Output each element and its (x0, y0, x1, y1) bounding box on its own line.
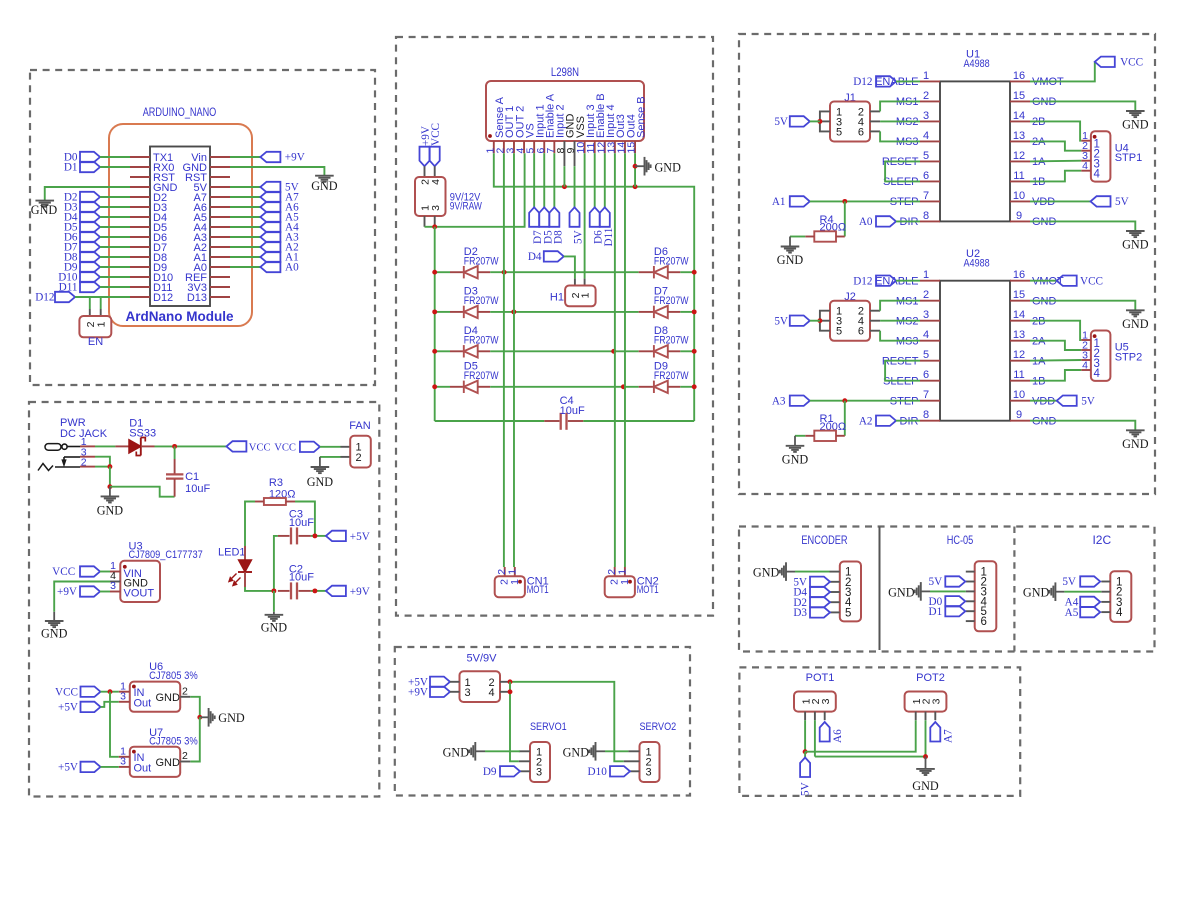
pin 4 VS of L298N (523, 141, 525, 153)
junction right rail (692, 309, 697, 314)
svg-text:EN: EN (88, 336, 103, 348)
wire pin15 (634, 153, 636, 187)
global label D11 (600, 207, 610, 227)
connector EN (89, 309, 91, 316)
wire (101, 702, 119, 707)
svg-text:GND: GND (311, 179, 338, 193)
svg-text:5V: 5V (1081, 395, 1095, 407)
global label 5V (1080, 576, 1100, 586)
global label D0 (945, 596, 965, 606)
pin 10 Input 3 of L298N (584, 141, 586, 153)
wire bottom rail (435, 420, 545, 422)
wire D4 to H1 (564, 256, 575, 278)
wire (320, 446, 341, 448)
global label A2 (230, 246, 260, 248)
connector U5 STP2 (1091, 331, 1111, 381)
global label A5 (230, 216, 260, 218)
svg-text:7: 7 (923, 389, 929, 401)
global label +9V (326, 586, 346, 596)
pin 3V3 (right) (210, 286, 230, 288)
wire (896, 280, 920, 282)
wire (89, 297, 91, 309)
pin 3 encoder (830, 591, 840, 593)
module outline (orange rounded rect) (109, 124, 252, 326)
pin 5 hc05 (966, 610, 975, 612)
svg-text:3: 3 (430, 205, 442, 211)
svg-text:GND: GND (261, 621, 288, 635)
pin 3 U4 (1081, 160, 1091, 162)
svg-text:Sense B: Sense B (635, 96, 647, 138)
global label +5V (326, 531, 346, 541)
svg-text:9: 9 (1016, 210, 1022, 222)
svg-text:5: 5 (845, 607, 851, 619)
wire (155, 445, 227, 447)
wire VSS (574, 166, 576, 207)
svg-text:4: 4 (923, 329, 929, 341)
wire (100, 196, 130, 198)
wire (109, 467, 111, 487)
wire (75, 296, 130, 298)
pin 13 Out3 of L298N (614, 141, 616, 153)
svg-text:2: 2 (81, 457, 87, 469)
connector U4 STP1 (1091, 131, 1111, 181)
svg-text:5V: 5V (774, 116, 788, 128)
junction left rail (432, 309, 437, 314)
global label D2 (80, 192, 100, 202)
svg-text:D10: D10 (588, 766, 608, 778)
svg-text:A4988: A4988 (964, 257, 990, 269)
pin 1 hc05 (966, 571, 975, 573)
global label A4 (230, 226, 260, 228)
svg-text:2: 2 (182, 685, 188, 697)
pin 1 U5 (1081, 339, 1091, 341)
junction (312, 588, 317, 593)
svg-text:10: 10 (1013, 190, 1025, 202)
pin 6 hc05 (966, 620, 975, 622)
svg-text:+9V: +9V (408, 687, 428, 699)
pin 1 U4 (1081, 140, 1091, 142)
svg-text:HC-05: HC-05 (947, 533, 974, 547)
junction (803, 749, 808, 754)
wire pot1 pin1 (804, 720, 806, 752)
pin 2 i2c (1101, 591, 1110, 593)
pin D9 (left) (130, 266, 150, 268)
pin 12 Input 4 of L298N (604, 141, 606, 153)
svg-text:GND: GND (97, 504, 124, 518)
global label D9 (500, 766, 520, 776)
ground GND (FAN) (319, 457, 321, 467)
pin 2 MS1 of U1 (920, 100, 940, 102)
svg-text:GND: GND (1122, 118, 1149, 132)
svg-text:L298N: L298N (551, 67, 579, 79)
wire to C1 bottom (110, 487, 175, 497)
ground (794, 436, 796, 446)
wire (95, 445, 115, 447)
wire (605, 750, 628, 752)
svg-text:FAN: FAN (349, 420, 370, 432)
svg-text:3: 3 (536, 766, 542, 778)
pin 15 GND of U1 (1010, 100, 1030, 102)
global label 5V (VDD) (1030, 200, 1091, 202)
junction (923, 754, 928, 759)
wire pin8 (563, 166, 565, 187)
global label 5V (570, 207, 580, 227)
global label D10 (610, 766, 630, 776)
junction (508, 689, 513, 694)
svg-text:5V: 5V (774, 315, 788, 327)
IC body ARDUINO_NANO (150, 147, 210, 307)
pin 1 ENABLE of U2 (920, 280, 940, 282)
pin 7 STEP of U2 (920, 400, 940, 402)
junction left rail (432, 349, 437, 354)
svg-text:4: 4 (923, 130, 929, 142)
svg-text:5: 5 (836, 126, 842, 138)
global label 5V (810, 577, 830, 587)
wire 1B to STP pin4 (1030, 370, 1081, 381)
svg-text:GND: GND (1122, 238, 1149, 252)
pin 1 ENABLE of U1 (920, 80, 940, 82)
junction (432, 224, 437, 229)
junction (107, 464, 112, 469)
svg-text:A3: A3 (772, 395, 786, 407)
svg-text:4: 4 (489, 687, 495, 699)
pin 7 Input 2 of L298N (553, 141, 555, 153)
pin 1 U3 (110, 571, 120, 573)
svg-text:10uF: 10uF (289, 572, 314, 584)
pin 5 RESET of U1 (920, 160, 940, 162)
global label VCC (80, 566, 100, 576)
global label D3 (80, 202, 100, 212)
pin A7 (right) (210, 196, 230, 198)
svg-text:D12: D12 (35, 292, 54, 304)
junction right rail (692, 384, 697, 389)
svg-text:GND: GND (563, 745, 590, 759)
wire Input2 (553, 153, 555, 207)
pin RST (left) (130, 176, 150, 178)
global label D4 (544, 251, 564, 261)
global label D5 (539, 207, 549, 227)
global label D4 (810, 587, 830, 597)
svg-text:GND: GND (156, 757, 181, 769)
section box: ARDUINO_NANO module (30, 70, 375, 385)
global label A7 (230, 196, 260, 198)
pin D4 (left) (130, 216, 150, 218)
wire (100, 166, 130, 168)
svg-text:3: 3 (820, 698, 832, 704)
pin 1 U7 (119, 756, 130, 758)
svg-text:POT1: POT1 (806, 672, 835, 684)
svg-text:6: 6 (923, 170, 929, 182)
pin 4 U3 (110, 581, 120, 583)
svg-text:GND: GND (777, 253, 804, 267)
svg-text:1: 1 (96, 321, 108, 327)
wire Input4 (604, 153, 606, 207)
global label D3 (810, 607, 830, 617)
svg-text:R3: R3 (269, 477, 283, 489)
wire J pin2 to MS1 (870, 310, 880, 312)
global label 5V (790, 316, 810, 326)
pin1/3 stubs (450, 681, 460, 683)
section box: L298N motor driver (396, 37, 713, 616)
section box: stepper drivers (739, 34, 1155, 494)
svg-text:15: 15 (1013, 90, 1025, 102)
svg-text:6: 6 (858, 126, 864, 138)
wire (274, 536, 278, 591)
pin 4 U4 (1081, 170, 1091, 172)
svg-text:9: 9 (1016, 409, 1022, 421)
wire RESET-SLEEP (885, 161, 920, 181)
svg-text:1: 1 (506, 569, 518, 575)
wire GND right (230, 167, 324, 175)
global label VCC (81, 687, 101, 697)
global label D11 (80, 282, 100, 292)
wire (896, 420, 920, 422)
wire (311, 535, 326, 537)
global label D10 (80, 272, 100, 282)
global label 5V (VDD) (1030, 400, 1057, 402)
svg-text:C1: C1 (185, 471, 199, 483)
svg-text:D12: D12 (853, 275, 872, 287)
pin 4 MS3 of U2 (920, 340, 940, 342)
junction (172, 444, 177, 449)
global label A3 (230, 236, 260, 238)
pin D7 (left) (130, 246, 150, 248)
svg-text:D1: D1 (64, 162, 78, 174)
junction (817, 119, 822, 124)
ground (35, 200, 54, 202)
wire (174, 446, 176, 459)
global label A6 (820, 722, 830, 742)
pin 2 U5 (1081, 349, 1091, 351)
pin 1 U6 (119, 691, 130, 693)
pin GND (left) (130, 186, 150, 188)
global label D0 (80, 152, 100, 162)
wire (896, 80, 920, 82)
svg-text:GND: GND (1122, 437, 1149, 451)
svg-text:GND: GND (782, 452, 809, 466)
capacitor C1 10uF (174, 459, 176, 474)
wire J pin4 to MS2 (870, 320, 880, 322)
pin 3 U7 (119, 766, 130, 768)
svg-text:3: 3 (931, 698, 943, 704)
svg-text:13: 13 (1013, 130, 1025, 142)
wire (680, 311, 694, 313)
svg-text:A6: A6 (832, 729, 844, 743)
svg-text:4: 4 (1094, 368, 1101, 380)
svg-text:10: 10 (1013, 389, 1025, 401)
wire (101, 691, 119, 693)
pin 11 1B of U1 (1010, 180, 1030, 182)
svg-text:GND: GND (655, 160, 682, 174)
wire (100, 256, 130, 258)
svg-text:10uF: 10uF (185, 483, 210, 495)
svg-text:2: 2 (356, 452, 362, 464)
svg-text:3: 3 (923, 110, 929, 122)
svg-text:5: 5 (923, 349, 929, 361)
global label A4 (1080, 597, 1100, 607)
wire (490, 311, 639, 313)
svg-text:VCC: VCC (1080, 275, 1103, 287)
pin 12 1A of U1 (1010, 160, 1030, 162)
wire J pin4 to MS2 (870, 120, 880, 122)
pin 15 Sense B of L298N (634, 141, 636, 153)
global label D7 (529, 207, 539, 227)
junction (271, 588, 276, 593)
pin 6 SLEEP of U1 (920, 180, 940, 182)
wire Input1 (533, 153, 535, 207)
svg-text:D12: D12 (853, 76, 872, 88)
svg-text:GND: GND (1023, 585, 1050, 599)
section box: servo power (395, 647, 690, 796)
connector 9V/12V 9V/RAW (424, 166, 426, 177)
svg-text:5V/9V: 5V/9V (467, 652, 498, 664)
svg-text:10uF: 10uF (289, 517, 314, 529)
svg-text:VCC: VCC (274, 442, 296, 453)
global label A0 (230, 266, 260, 268)
pin 4 i2c (1101, 611, 1110, 613)
wire (795, 435, 805, 437)
pin1 dot L298N (488, 134, 492, 138)
wire Out3 column (614, 153, 616, 567)
ground (53, 612, 55, 621)
wire Out4 column (624, 153, 626, 567)
wire 1A to STP pin3 (1030, 160, 1081, 163)
pin 16 VMOT of U2 (1010, 280, 1030, 282)
pin D11 (left) (130, 286, 150, 288)
svg-text:11: 11 (1013, 170, 1024, 182)
global label +9V (80, 586, 100, 596)
wire GND left (45, 187, 130, 200)
ground (1126, 429, 1145, 431)
svg-text:SERVO2: SERVO2 (640, 721, 677, 733)
junction (107, 484, 112, 489)
svg-text:5V: 5V (929, 576, 943, 588)
svg-text:GND: GND (912, 779, 939, 793)
wire VCC down to U7 (110, 692, 119, 757)
wire pot2 pin1 to row A (805, 720, 916, 752)
wire GND pin15 (1030, 101, 1135, 110)
wire (100, 266, 130, 268)
global label D7 (80, 242, 100, 252)
svg-text:+9V: +9V (350, 586, 370, 598)
svg-text:6: 6 (923, 369, 929, 381)
svg-text:8: 8 (923, 409, 929, 421)
svg-text:D9: D9 (483, 766, 497, 778)
svg-text:VCC: VCC (430, 123, 442, 146)
svg-text:3: 3 (110, 580, 116, 592)
pin 15 GND of U2 (1010, 300, 1030, 302)
pin REF (right) (210, 276, 230, 278)
global label +5V (430, 677, 450, 687)
global label +9V (430, 687, 450, 697)
svg-text:3: 3 (120, 690, 126, 702)
svg-text:3: 3 (465, 687, 471, 699)
svg-text:5V: 5V (800, 782, 812, 796)
svg-text:+5V: +5V (58, 702, 78, 714)
svg-text:10uF: 10uF (560, 405, 585, 417)
svg-text:Out: Out (134, 763, 152, 775)
wire row D3 (435, 311, 450, 313)
svg-text:GND: GND (888, 585, 915, 599)
svg-text:3: 3 (923, 309, 929, 321)
svg-text:FR207W: FR207W (464, 256, 499, 268)
pin 4 encoder (830, 601, 840, 603)
wire (810, 200, 920, 202)
pin 9 GND of U2 (1010, 420, 1030, 422)
svg-text:7: 7 (923, 190, 929, 202)
svg-text:SERVO1: SERVO1 (530, 721, 567, 733)
pin 16 VMOT of U1 (1010, 80, 1030, 82)
svg-text:STP1: STP1 (1115, 152, 1143, 164)
pin2/4 stubs (500, 681, 510, 683)
wire (930, 590, 966, 592)
wire left rail (434, 227, 436, 421)
junction (842, 199, 847, 204)
svg-text:D3: D3 (793, 607, 807, 619)
pin 3 OUT 2 of L298N (513, 141, 515, 153)
pin A2 (right) (210, 246, 230, 248)
svg-text:MOT1: MOT1 (527, 584, 549, 596)
junction (508, 679, 513, 684)
pin 3 hc05 (966, 590, 975, 592)
wire (810, 400, 920, 402)
wire (795, 571, 830, 573)
wire row D4 (435, 350, 450, 352)
wire 1B to STP pin4 (1030, 171, 1081, 182)
svg-text:A0: A0 (285, 262, 299, 274)
svg-text:9V/RAW: 9V/RAW (450, 201, 483, 213)
pin D8 (left) (130, 256, 150, 258)
pin 5 Input 1 of L298N (533, 141, 535, 153)
svg-text:GND: GND (31, 203, 58, 217)
svg-text:+5V: +5V (350, 531, 370, 543)
connector I2C (1110, 571, 1131, 622)
wire row D5 (435, 386, 450, 388)
pin 14 Out4 of L298N (624, 141, 626, 153)
wire (790, 236, 805, 238)
svg-text:D1: D1 (929, 606, 943, 618)
ground GND (pots) (925, 757, 927, 769)
pin 2 U4 (1081, 150, 1091, 152)
svg-text:D13: D13 (187, 292, 207, 304)
junction (511, 309, 516, 314)
svg-text:4: 4 (1116, 607, 1123, 619)
svg-text:3: 3 (646, 766, 652, 778)
connector FAN (341, 446, 351, 448)
pin RST (right) (210, 176, 230, 178)
connector CN2 MOT1 (614, 567, 616, 576)
svg-text:D12: D12 (153, 292, 173, 304)
junction (633, 184, 638, 189)
wire EnableA (543, 153, 545, 207)
svg-text:1: 1 (923, 269, 929, 281)
global label D1 (80, 162, 100, 172)
pin 8 DIR of U2 (920, 420, 940, 422)
junction (611, 349, 616, 354)
wire (320, 456, 341, 458)
pin A6 (right) (210, 206, 230, 208)
svg-text:1: 1 (923, 70, 929, 82)
junction right rail (692, 270, 697, 275)
wire (896, 220, 920, 222)
pin 14 2B of U2 (1010, 320, 1030, 322)
svg-text:D11: D11 (603, 228, 615, 247)
global label D2 (810, 597, 830, 607)
wire (490, 386, 639, 388)
svg-text:13: 13 (1013, 329, 1025, 341)
wire (100, 246, 130, 248)
svg-text:2: 2 (182, 750, 188, 762)
